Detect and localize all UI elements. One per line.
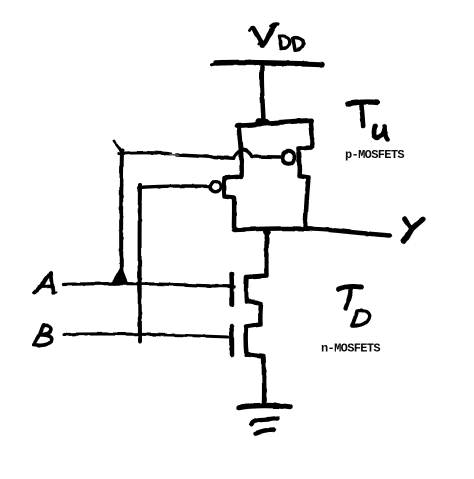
svg-text:n-MOSFETS: n-MOSFETS <box>321 342 380 356</box>
svg-text:p-MOSFETS: p-MOSFETS <box>345 148 404 162</box>
